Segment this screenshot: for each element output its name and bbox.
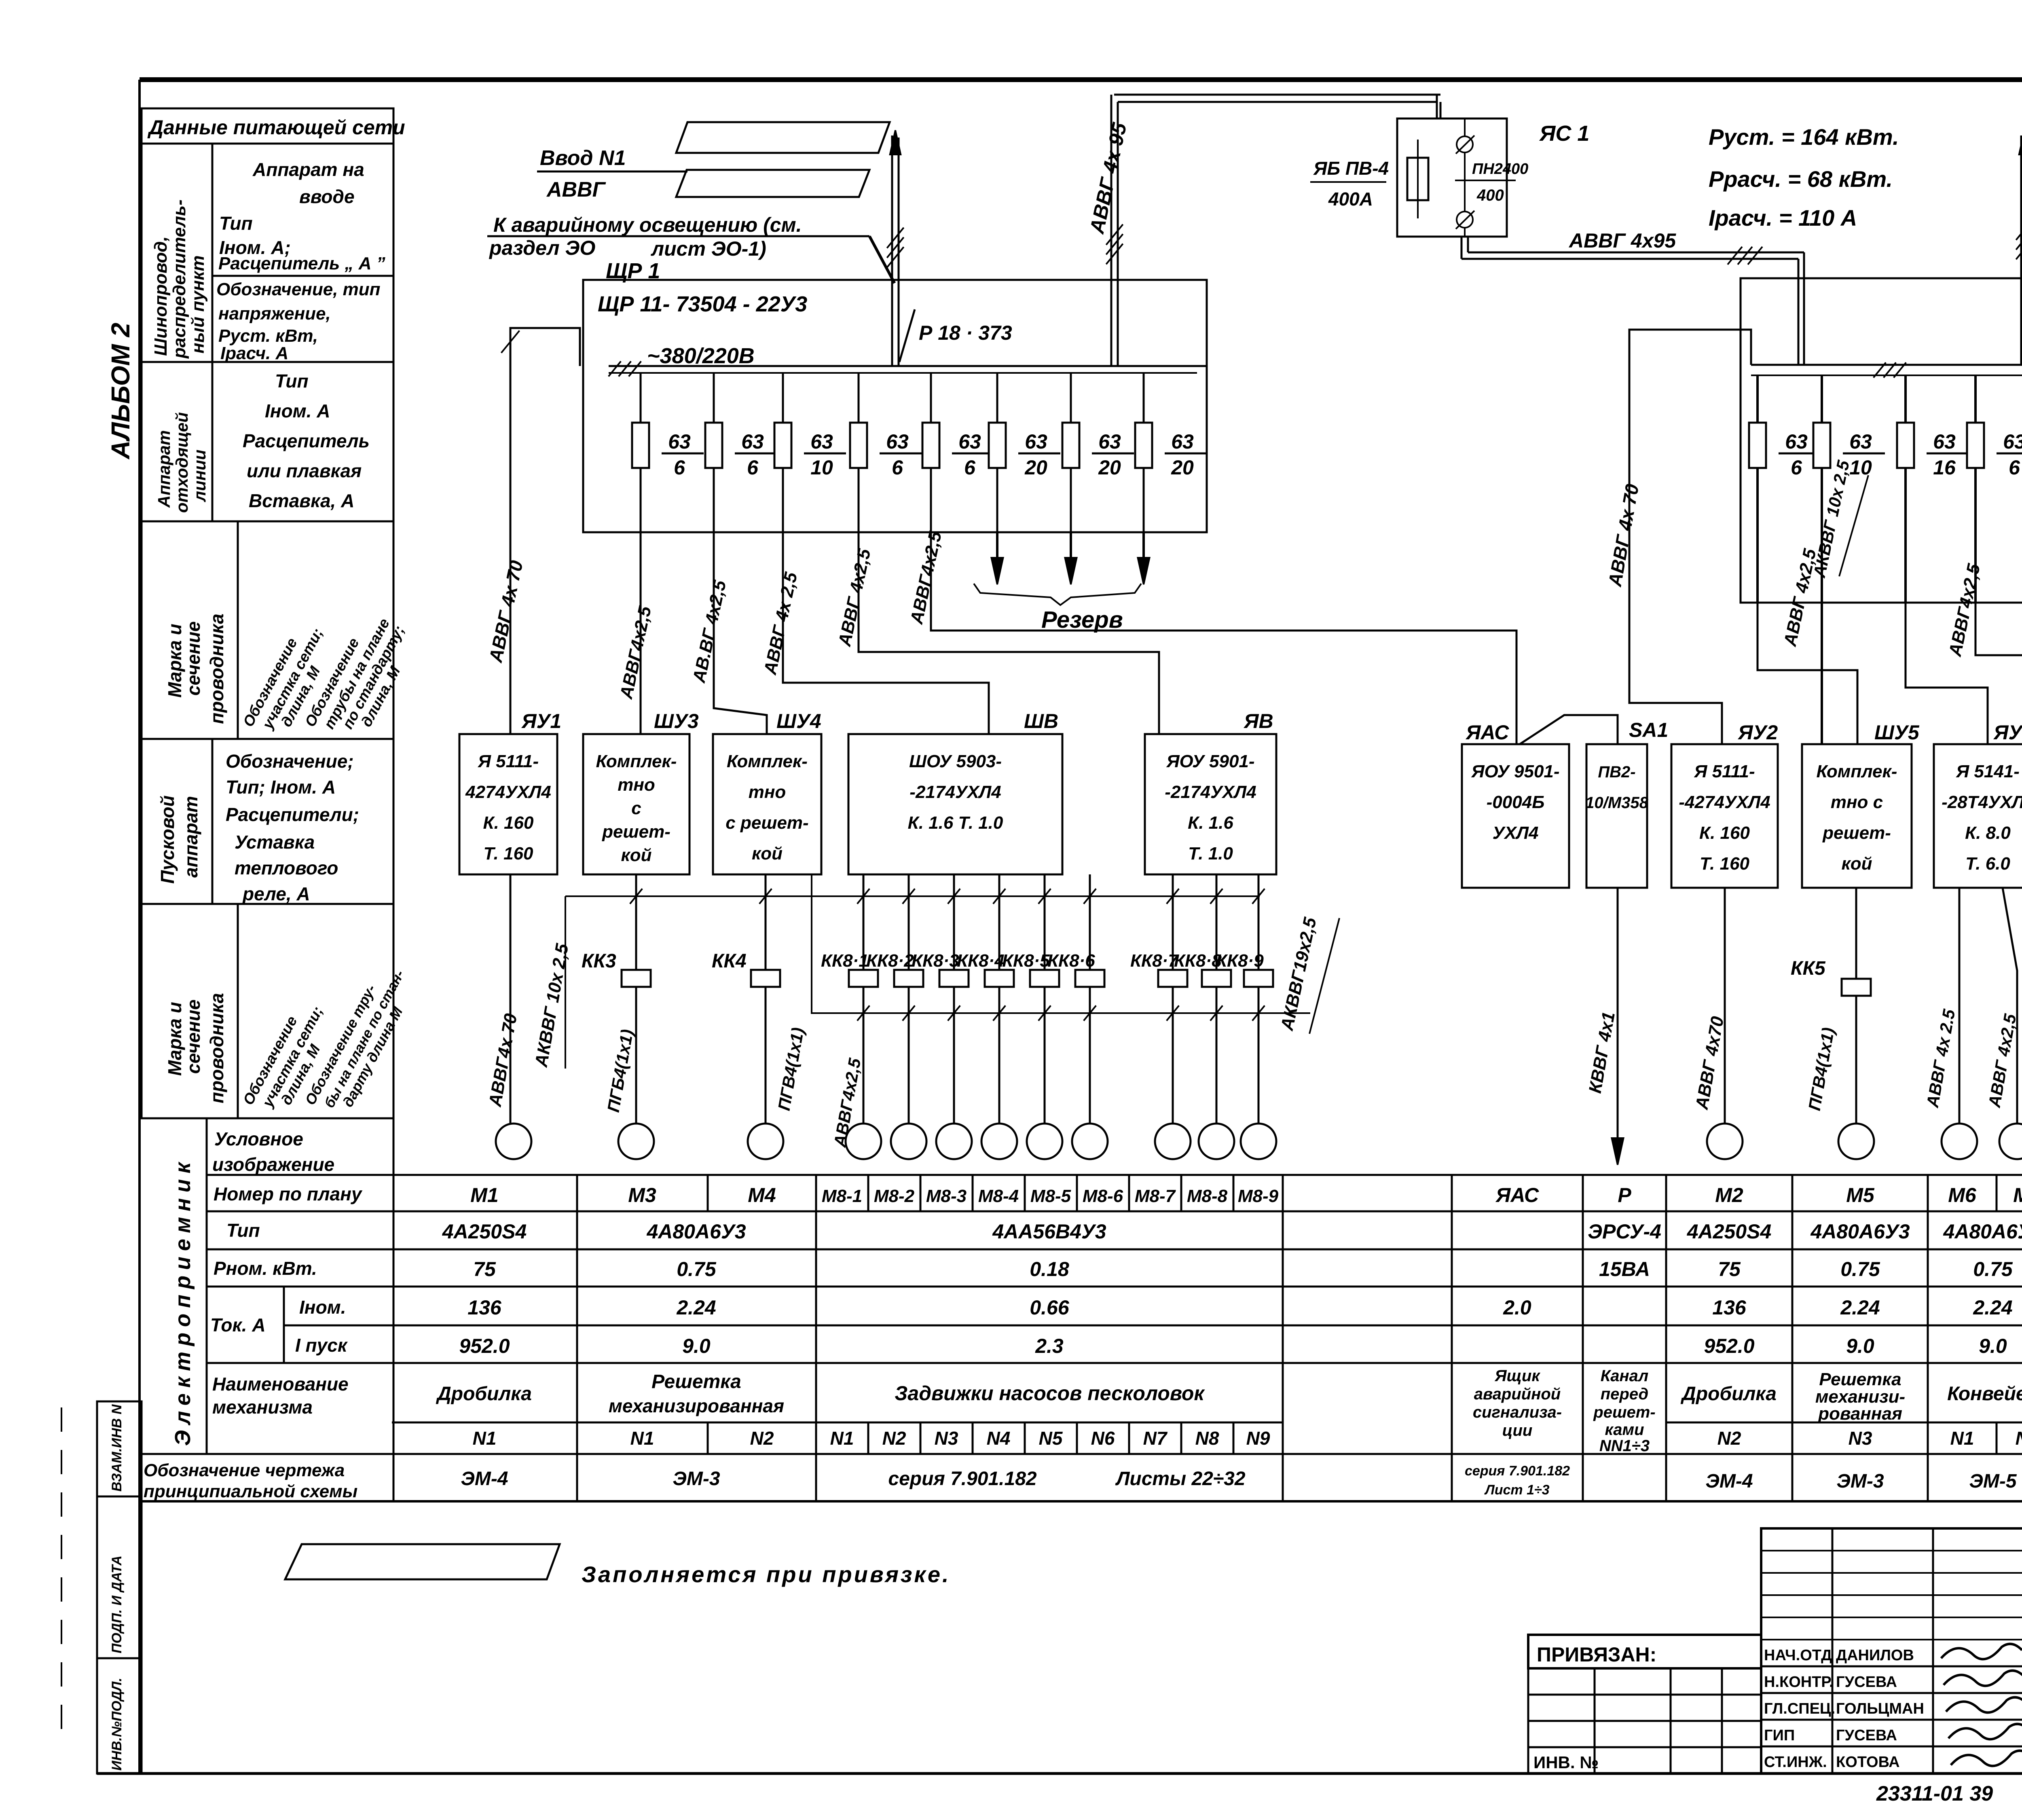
svg-text:М6: М6 (1948, 1184, 1977, 1206)
svg-text:N3: N3 (935, 1428, 958, 1449)
svg-text:-0004Б: -0004Б (1487, 792, 1545, 812)
row1 label Шинопровод распределительный пункт (151, 199, 208, 359)
breaker ШР2 QF10 63/10 (1813, 423, 1885, 479)
svg-text:М1: М1 (470, 1184, 498, 1206)
label ЯБ ПВ-4 400А (1310, 158, 1389, 210)
row2 cell Тип Iном Расцепитель (243, 370, 370, 511)
svg-text:КК8·3: КК8·3 (912, 951, 959, 971)
stamp signatures squiggles (1941, 1644, 2022, 1766)
svg-text:4А80А6У3: 4А80А6У3 (646, 1220, 746, 1243)
svg-text:ШУ3: ШУ3 (654, 710, 699, 732)
svg-text:ЯАС: ЯАС (1495, 1184, 1539, 1206)
svg-text:Комплек-: Комплек- (596, 751, 677, 771)
svg-text:Ток. А: Ток. А (210, 1314, 266, 1335)
svg-text:N9: N9 (1246, 1428, 1270, 1449)
svg-text:М8-7: М8-7 (1135, 1186, 1176, 1206)
svg-text:Руст. кВт,: Руст. кВт, (218, 326, 318, 346)
starter box ЯВ (1145, 710, 1276, 874)
svg-text:Ррасч. = 68 кВт.: Ррасч. = 68 кВт. (1709, 166, 1893, 192)
svg-text:6: 6 (1791, 456, 1802, 479)
svg-text:решет-: решет- (1822, 823, 1891, 843)
left margin stamp strip boxes (97, 1401, 142, 1773)
feeder wire to ШУ3 (616, 532, 656, 734)
svg-text:20: 20 (1171, 456, 1194, 479)
table row Iпуск values (459, 1335, 2022, 1357)
svg-text:ГУСЕВА: ГУСЕВА (1836, 1674, 1897, 1691)
svg-text:М8-4: М8-4 (978, 1186, 1019, 1206)
svg-text:напряжение,: напряжение, (218, 304, 331, 324)
svg-text:Дробилка: Дробилка (1680, 1383, 1777, 1405)
svg-text:КК8·7: КК8·7 (1130, 951, 1179, 971)
svg-text:аварийной: аварийной (1474, 1385, 1561, 1403)
stamp attachment box ПРИВЯЗАН (1528, 1635, 1761, 1773)
svg-text:проводника: проводника (206, 993, 227, 1103)
motor М2 circle (1707, 1124, 1743, 1159)
svg-text:63: 63 (1025, 430, 1047, 453)
motor М1 circle (496, 1124, 531, 1159)
svg-text:ГИП: ГИП (1764, 1727, 1795, 1744)
svg-text:2.3: 2.3 (1035, 1335, 1064, 1357)
svg-text:Лист 1÷3: Лист 1÷3 (1484, 1482, 1549, 1498)
stamp signature grid (1761, 1528, 2022, 1773)
svg-text:сигнализа-: сигнализа- (1473, 1403, 1562, 1421)
svg-text:М4: М4 (748, 1184, 776, 1206)
svg-text:М3: М3 (628, 1184, 656, 1206)
svg-text:КК8·8: КК8·8 (1174, 951, 1222, 971)
svg-text:952.0: 952.0 (459, 1335, 510, 1357)
svg-text:I пуск: I пуск (295, 1335, 348, 1356)
header text Данные питающей сети (147, 116, 405, 139)
svg-text:N1: N1 (1950, 1428, 1974, 1449)
svg-text:Решетка: Решетка (1819, 1369, 1901, 1389)
svg-text:К. 160: К. 160 (483, 813, 534, 833)
breaker ШР1 QF6 63/20 (989, 423, 1060, 479)
svg-text:Комплек-: Комплек- (727, 751, 808, 771)
incoming riser Ввод N2 double line (2016, 130, 2022, 365)
feeder data header table (142, 108, 393, 1118)
svg-text:Решетка: Решетка (651, 1371, 741, 1393)
svg-text:перед: перед (1601, 1385, 1649, 1403)
table row Рном values (473, 1258, 2022, 1280)
svg-text:проводника: проводника (206, 614, 227, 724)
svg-text:63: 63 (2003, 430, 2022, 453)
svg-text:Условное: Условное (214, 1128, 303, 1149)
svg-text:63: 63 (1171, 430, 1194, 453)
svg-text:ЭМ-4: ЭМ-4 (1705, 1471, 1753, 1492)
svg-text:Комплек-: Комплек- (1817, 762, 1897, 781)
feeder wire to ШВ (760, 532, 989, 734)
diagonal link ЯАС to SA1 (1520, 715, 1618, 744)
svg-text:Дробилка: Дробилка (436, 1383, 532, 1405)
svg-text:К. 160: К. 160 (1699, 823, 1750, 843)
motor М6 wire and circle (1923, 888, 1977, 1159)
svg-text:рованная: рованная (1818, 1404, 1902, 1424)
svg-text:N1: N1 (830, 1428, 854, 1449)
svg-text:АВВГ 4х95: АВВГ 4х95 (1568, 229, 1676, 252)
fuse ПН2-400 symbol (1407, 140, 1428, 218)
ШР1 breakers with wires (641, 373, 1144, 532)
svg-text:ШУ4: ШУ4 (776, 710, 821, 732)
svg-text:УХЛ4: УХЛ4 (1493, 823, 1539, 843)
svg-text:Iном. А: Iном. А (265, 400, 330, 421)
fuse box ЯС1 outline (1397, 95, 1507, 237)
svg-text:Обозначение;: Обозначение; (226, 751, 354, 772)
thermal relay КК8-2 with motor М8-2 (866, 874, 926, 1159)
feeder wire to ЯВ (835, 532, 1159, 734)
thermal relay КК5 (1791, 888, 1871, 1124)
caption Заполняется при привязке (582, 1562, 951, 1587)
svg-text:136: 136 (1712, 1296, 1747, 1319)
svg-text:сечение: сечение (183, 621, 204, 696)
svg-text:механизированная: механизированная (609, 1395, 784, 1416)
svg-text:КК8·5: КК8·5 (1002, 951, 1050, 971)
feeder wire to ШУ4 (689, 532, 767, 734)
starter box ЯУ1 (459, 710, 561, 874)
svg-text:0.75: 0.75 (1840, 1258, 1880, 1280)
svg-text:63: 63 (1785, 430, 1808, 453)
svg-text:М8-5: М8-5 (1030, 1186, 1071, 1206)
svg-text:ЯС 1: ЯС 1 (1539, 121, 1589, 146)
svg-text:ками: ками (1605, 1421, 1644, 1439)
svg-text:Я 5111-: Я 5111- (1694, 762, 1755, 781)
alarm box output arrow КВВГ4х1 (1585, 888, 1624, 1165)
svg-text:Данные питающей сети: Данные питающей сети (147, 116, 405, 139)
incoming riser Ввод N1 double line (887, 130, 903, 366)
svg-text:N7: N7 (1143, 1428, 1168, 1449)
svg-text:NN1÷3: NN1÷3 (1599, 1437, 1650, 1455)
svg-text:6: 6 (892, 456, 903, 479)
svg-text:ЯОУ 5901-: ЯОУ 5901- (1166, 751, 1254, 771)
thermal relay КК8-4 with motor М8-4 (957, 874, 1017, 1159)
svg-text:ШВ: ШВ (1024, 710, 1058, 732)
svg-text:К. 8.0: К. 8.0 (1965, 823, 2011, 843)
svg-text:Тип: Тип (226, 1220, 260, 1241)
svg-text:Уставка: Уставка (235, 832, 315, 853)
starter box ЯУ6.7 (1934, 721, 2022, 888)
svg-text:Номер по плану: Номер по плану (214, 1183, 363, 1204)
row3 label Марка и сечение проводника (164, 614, 227, 724)
svg-text:НАЧ.ОТД: НАЧ.ОТД (1764, 1647, 1832, 1664)
svg-text:ПОДП. И ДАТА: ПОДП. И ДАТА (109, 1555, 125, 1653)
svg-text:Расцепитель „ А ”: Расцепитель „ А ” (218, 254, 385, 273)
svg-text:ПРИВЯЗАН:: ПРИВЯЗАН: (1537, 1643, 1656, 1666)
svg-text:распределитель-: распределитель- (169, 199, 189, 359)
panel ШР1 name labels (598, 259, 807, 368)
svg-text:0.75: 0.75 (1973, 1258, 2013, 1280)
svg-text:отходящей: отходящей (172, 412, 191, 513)
row2 label Аппарат отходящей линии (154, 412, 209, 513)
feeder wire to ЯУ1 АВВГ4х70 (485, 328, 580, 734)
row1 cell Обозначение тип напряжение (216, 279, 381, 363)
svg-text:ЯВ: ЯВ (1243, 710, 1273, 732)
breaker ШР2 QF12 63/6 (1967, 423, 2022, 479)
breaker ШР1 QF1 63/6 (632, 423, 704, 479)
svg-text:тно: тно (618, 775, 655, 795)
svg-text:тно с: тно с (1831, 792, 1883, 812)
album label АЛЬБОМ 2 (106, 323, 135, 460)
svg-text:20: 20 (1024, 456, 1047, 479)
svg-text:4АА56В4У3: 4АА56В4У3 (992, 1220, 1106, 1243)
feeder wire to ЯАС long run (907, 529, 1516, 744)
table row schematic drawing refs (461, 1463, 2022, 1498)
row5 label Марка и сечение проводника (164, 993, 227, 1103)
svg-text:кой: кой (752, 844, 783, 863)
svg-text:N3: N3 (1849, 1428, 1872, 1449)
motor cable М1 with label (485, 874, 521, 1124)
svg-text:Расцепители;: Расцепители; (226, 804, 359, 825)
svg-text:Т. 160: Т. 160 (1700, 854, 1750, 874)
svg-text:КК3: КК3 (582, 950, 616, 972)
svg-text:N8: N8 (1195, 1428, 1219, 1449)
svg-text:теплового: теплового (235, 857, 338, 878)
svg-text:-28Т4УХЛ4: -28Т4УХЛ4 (1942, 792, 2022, 812)
svg-text:серия 7.901.182: серия 7.901.182 (888, 1468, 1036, 1490)
svg-text:серия 7.901.182: серия 7.901.182 (1465, 1463, 1570, 1479)
svg-text:М8-6: М8-6 (1083, 1186, 1123, 1206)
svg-text:2.24: 2.24 (676, 1296, 716, 1319)
breaker ШР1 QF2 63/6 (705, 423, 777, 479)
row4 cell Обозначение Тип Расцепители (226, 751, 359, 904)
svg-text:М8-2: М8-2 (874, 1186, 915, 1206)
svg-text:М8-3: М8-3 (926, 1186, 967, 1206)
interlock line upper with ticks (565, 889, 1265, 904)
svg-text:М8-1: М8-1 (822, 1186, 862, 1206)
bus bars ШР1 (609, 361, 1207, 376)
svg-text:с: с (631, 798, 641, 818)
svg-text:~380/220В: ~380/220В (647, 344, 755, 368)
svg-text:ЭМ-3: ЭМ-3 (673, 1468, 720, 1490)
svg-text:Шинопровод,: Шинопровод, (151, 236, 171, 356)
svg-text:Я 5111-: Я 5111- (478, 751, 539, 771)
svg-text:ШУ5: ШУ5 (1874, 721, 1920, 744)
svg-text:Ящик: Ящик (1494, 1367, 1540, 1385)
row3 slanted cell Обозначение участка сети (240, 625, 326, 732)
svg-text:6: 6 (674, 456, 685, 479)
svg-text:решет-: решет- (602, 822, 670, 842)
svg-text:КОТОВА: КОТОВА (1836, 1754, 1900, 1771)
svg-text:Руст. = 164 кВт.: Руст. = 164 кВт. (1709, 124, 1899, 150)
svg-text:Тип: Тип (219, 213, 253, 234)
svg-text:63: 63 (1098, 430, 1121, 453)
svg-text:изображение: изображение (212, 1154, 334, 1175)
svg-text:Аппарат на: Аппарат на (252, 159, 364, 180)
svg-text:N2: N2 (2016, 1428, 2022, 1449)
svg-text:Марка и: Марка и (164, 1002, 185, 1076)
table row plant numbers (473, 1428, 2022, 1449)
svg-text:6: 6 (2009, 456, 2020, 479)
label Р18-373 for ШР1 (899, 309, 1012, 362)
svg-text:К аварийному освещению (см.: К аварийному освещению (см. (493, 214, 802, 236)
reserve arrows ШР1 with brace and label (974, 532, 1150, 633)
svg-text:Электроприемник: Электроприемник (171, 1157, 195, 1446)
thermal relay КК8-7 with motor М8-7 (1130, 874, 1191, 1159)
svg-text:раздел ЭО: раздел ЭО (489, 237, 595, 259)
control cable line АКВВГ10х2.5 with label (531, 896, 572, 1069)
svg-text:Наименование: Наименование (212, 1373, 349, 1395)
svg-text:М8-8: М8-8 (1187, 1186, 1228, 1206)
svg-text:К. 1.6 Т. 1.0: К. 1.6 Т. 1.0 (908, 813, 1003, 833)
svg-text:Ввод N1: Ввод N1 (540, 146, 626, 170)
svg-text:ЯАС: ЯАС (1465, 721, 1509, 744)
table row Тип values (442, 1220, 2022, 1243)
svg-text:КК8·9: КК8·9 (1216, 951, 1264, 971)
svg-text:Iрасч. А: Iрасч. А (220, 343, 288, 363)
valve control bus АКВВГ19х2.5 lower with ticks (812, 874, 1339, 1149)
svg-text:КК4: КК4 (712, 950, 747, 972)
table header row numbers (470, 1184, 2022, 1206)
svg-text:4А250S4: 4А250S4 (442, 1220, 527, 1243)
svg-text:15ВА: 15ВА (1599, 1258, 1650, 1280)
thermal relay КК8-5 with motor М8-5 (1002, 874, 1062, 1159)
svg-text:4А250S4: 4А250S4 (1687, 1220, 1772, 1243)
svg-text:ГОЛЬЦМАН: ГОЛЬЦМАН (1836, 1700, 1924, 1717)
svg-text:N2: N2 (882, 1428, 906, 1449)
svg-text:ЭМ-5: ЭМ-5 (1969, 1471, 2017, 1492)
svg-text:КК8·6: КК8·6 (1047, 951, 1095, 971)
svg-text:КК8·2: КК8·2 (866, 951, 914, 971)
svg-text:Обозначение чертежа: Обозначение чертежа (144, 1460, 345, 1480)
svg-text:9.0: 9.0 (1846, 1335, 1874, 1357)
row1 cell Аппарат на вводе (218, 159, 385, 273)
starter box SA1 (1585, 719, 1668, 888)
terminal circles ЯС1 (1456, 135, 1474, 229)
breaker ШР1 QF3 63/10 (774, 423, 846, 479)
breaker ШР1 QF5 63/6 (922, 423, 994, 479)
thermal relay КК3 (582, 874, 651, 1124)
svg-text:136: 136 (467, 1296, 502, 1319)
note К аварийному освещению (487, 214, 895, 283)
svg-text:Т. 1.0: Т. 1.0 (1188, 844, 1233, 863)
svg-text:ЩР 1: ЩР 1 (606, 259, 660, 283)
motor cable М2 with label (1692, 888, 1728, 1124)
svg-text:10: 10 (810, 456, 833, 479)
svg-text:АЛЬБОМ 2: АЛЬБОМ 2 (106, 323, 135, 460)
feeder wire to ШУ5 first (1758, 547, 1857, 744)
svg-text:6: 6 (964, 456, 976, 479)
svg-text:ЯУ6.7: ЯУ6.7 (1993, 721, 2022, 744)
svg-text:ЯБ ПВ-4: ЯБ ПВ-4 (1313, 158, 1389, 179)
svg-text:ЯУ1: ЯУ1 (521, 710, 561, 732)
thermal relay КК8-6 with motor М8-6 (1047, 874, 1108, 1159)
breaker ШР2 QF9 63/6 (1749, 423, 1821, 479)
svg-text:-2174УХЛ4: -2174УХЛ4 (909, 782, 1001, 802)
svg-text:ции: ции (1502, 1422, 1533, 1439)
svg-text:63: 63 (1849, 430, 1872, 453)
svg-text:вводе: вводе (299, 186, 355, 207)
svg-text:ПН2400: ПН2400 (1472, 161, 1528, 178)
svg-text:N1: N1 (630, 1428, 654, 1449)
svg-text:-2174УХЛ4: -2174УХЛ4 (1165, 782, 1256, 802)
svg-text:КК8·4: КК8·4 (957, 951, 1005, 971)
svg-text:ЯОУ 9501-: ЯОУ 9501- (1471, 762, 1559, 781)
svg-text:63: 63 (810, 430, 833, 453)
svg-text:4А80А6У3: 4А80А6У3 (1943, 1220, 2022, 1243)
motor М5 circle (1838, 1124, 1874, 1159)
svg-text:N6: N6 (1091, 1428, 1115, 1449)
svg-text:Т. 6.0: Т. 6.0 (1965, 854, 2010, 874)
svg-text:N5: N5 (1039, 1428, 1063, 1449)
svg-text:N2: N2 (750, 1428, 774, 1449)
svg-text:принципиальной схемы: принципиальной схемы (144, 1481, 357, 1501)
svg-text:Задвижки насосов песколовок: Задвижки насосов песколовок (895, 1382, 1205, 1405)
breaker ШР1 QF8 63/20 (1135, 423, 1207, 479)
cable АВВГ4х95 from ЯС1 to ШР2 (1462, 229, 1804, 364)
svg-text:63: 63 (886, 430, 909, 453)
row3 slanted cell Обозначение трубы на плане (302, 616, 408, 732)
svg-text:Iном.: Iном. (299, 1297, 346, 1318)
svg-text:Я 5141-: Я 5141- (1956, 762, 2020, 781)
svg-text:или плавкая: или плавкая (247, 460, 362, 481)
svg-text:ИНВ.№ПОДЛ.: ИНВ.№ПОДЛ. (109, 1678, 125, 1771)
svg-text:Рном. кВт.: Рном. кВт. (214, 1258, 317, 1279)
handwritten notes below frame (1876, 1782, 2022, 1808)
blank attachment parallelogram (285, 1544, 560, 1579)
feeder wire to ЯУ6.7 (1906, 562, 1988, 744)
svg-text:ный пункт: ный пункт (188, 255, 208, 353)
svg-text:М5: М5 (1846, 1184, 1875, 1206)
motor М4 circle (748, 1124, 783, 1159)
motor М3 circle (618, 1124, 654, 1159)
row4 label Пусковой аппарат (157, 796, 201, 884)
svg-text:75: 75 (1718, 1258, 1741, 1280)
svg-text:ИНВ. №: ИНВ. № (1533, 1753, 1599, 1772)
feeder wire to КМНЭ-1 (1975, 554, 2022, 744)
svg-text:ШОУ 5903-: ШОУ 5903- (909, 751, 1002, 771)
svg-text:0.75: 0.75 (677, 1258, 717, 1280)
fold dashed line (61, 1407, 62, 1739)
load summary labels Руст Ррасч Iрасч (1709, 124, 1899, 231)
svg-text:ЯУ2: ЯУ2 (1737, 721, 1778, 744)
svg-text:М2: М2 (1715, 1184, 1743, 1206)
svg-text:М7: М7 (2013, 1184, 2022, 1206)
svg-text:2.0: 2.0 (1503, 1296, 1531, 1319)
svg-text:механизма: механизма (212, 1397, 313, 1418)
breaker ШР1 QF4 63/6 (850, 423, 922, 479)
svg-text:2.24: 2.24 (1973, 1296, 2012, 1319)
table left labels Электроприемник block (144, 1128, 363, 1501)
svg-text:Р 18 · 373: Р 18 · 373 (919, 322, 1012, 344)
consumer table grid (142, 1118, 2022, 1501)
svg-text:16: 16 (1933, 456, 1956, 479)
svg-text:с решет-: с решет- (725, 813, 808, 833)
svg-text:сечение: сечение (183, 999, 204, 1074)
svg-text:63: 63 (958, 430, 981, 453)
svg-text:кой: кой (621, 845, 651, 865)
starter box ШУ3 (583, 710, 699, 874)
starter box ШУ5 (1802, 721, 1920, 888)
starter box ШУ4 (713, 710, 821, 874)
svg-text:Т. 160: Т. 160 (483, 844, 533, 863)
panel ШР2 outline (1741, 278, 2022, 603)
starter box ШВ (848, 710, 1062, 874)
riser АВВГ4х95 to fuse box (1085, 95, 1440, 366)
feeder wire to ШУ5 second АКВВГ10х2.5 (1810, 459, 1868, 744)
svg-text:2.24: 2.24 (1840, 1296, 1880, 1319)
svg-text:ЭМ-4: ЭМ-4 (461, 1468, 508, 1490)
thermal relay КК8-9 with motor М8-9 (1216, 874, 1276, 1159)
svg-text:Заполняется при привязке.: Заполняется при привязке. (582, 1562, 951, 1587)
svg-text:9.0: 9.0 (1979, 1335, 2007, 1357)
svg-text:Листы 22÷32: Листы 22÷32 (1115, 1468, 1245, 1490)
ШР2 breakers with wires (1758, 375, 2022, 603)
svg-text:0.66: 0.66 (1030, 1296, 1070, 1319)
svg-text:Вставка, А: Вставка, А (249, 490, 354, 511)
svg-text:АВВГ: АВВГ (546, 178, 606, 201)
svg-text:N2: N2 (1717, 1428, 1741, 1449)
svg-text:SA1: SA1 (1629, 719, 1668, 741)
svg-text:Резерв: Резерв (1041, 607, 1123, 633)
row5 slanted cell Обозначение трубы (302, 967, 408, 1111)
